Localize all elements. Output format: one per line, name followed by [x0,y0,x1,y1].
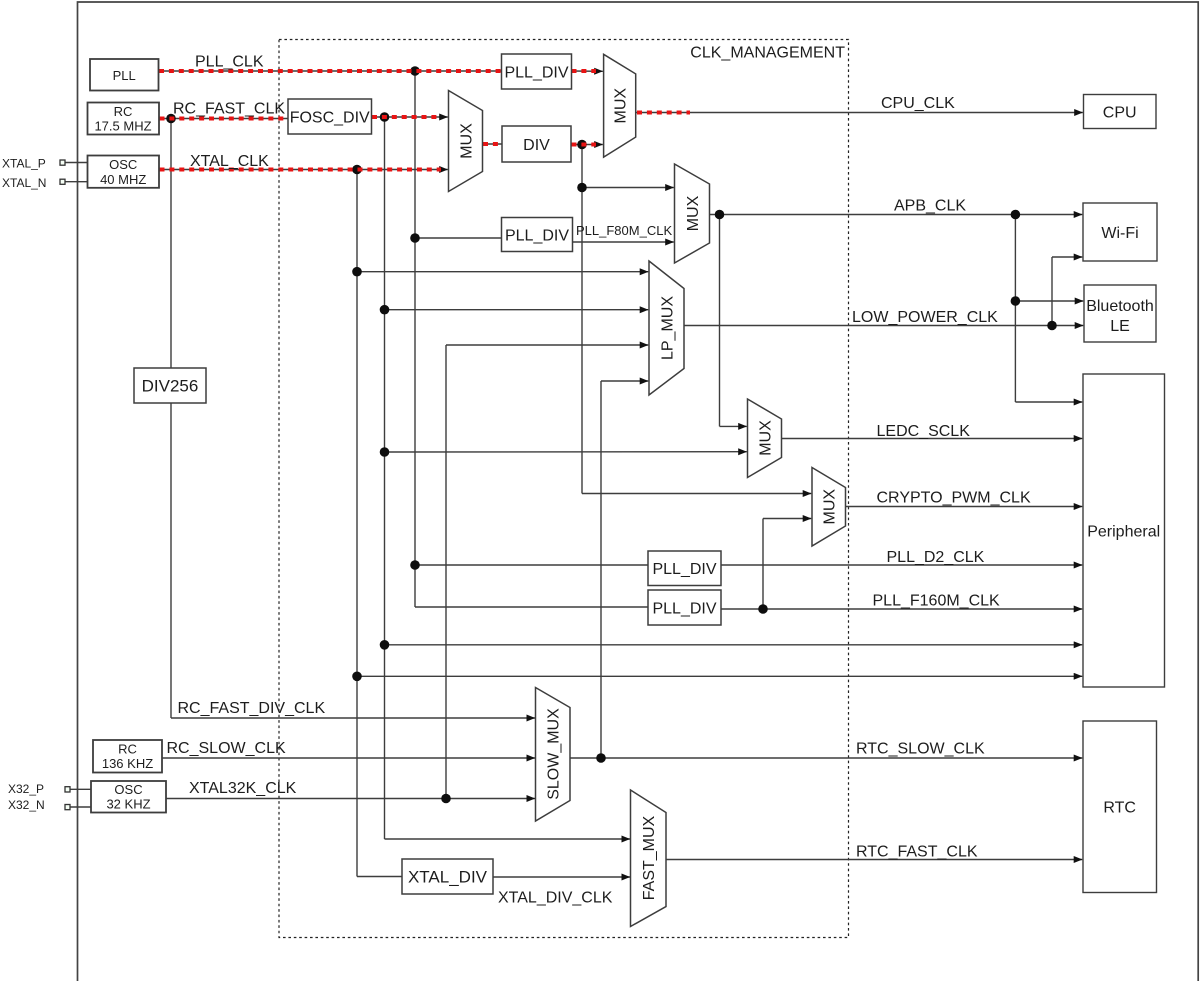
svg-text:MUX: MUX [757,420,774,456]
svg-text:DIV: DIV [523,137,550,154]
svg-text:MUX: MUX [458,123,475,159]
svg-text:XTAL_CLK: XTAL_CLK [190,153,269,170]
svg-text:XTAL_P: XTAL_P [2,156,46,170]
svg-text:PLL_F160M_CLK: PLL_F160M_CLK [873,593,1001,610]
svg-text:Bluetooth: Bluetooth [1086,298,1154,315]
svg-text:17.5 MHZ: 17.5 MHZ [94,118,151,133]
svg-text:PLL_DIV: PLL_DIV [505,227,569,244]
svg-text:RC: RC [114,104,133,119]
svg-text:LEDC_SCLK: LEDC_SCLK [877,423,971,440]
svg-text:OSC: OSC [114,782,142,797]
svg-text:RTC_FAST_CLK: RTC_FAST_CLK [856,844,978,861]
svg-text:PLL_DIV: PLL_DIV [652,600,716,617]
svg-text:PLL_F80M_CLK: PLL_F80M_CLK [576,223,672,238]
svg-text:CPU_CLK: CPU_CLK [881,95,955,112]
svg-text:MUX: MUX [612,88,629,124]
svg-text:MUX: MUX [822,489,839,525]
svg-text:RC_FAST_CLK: RC_FAST_CLK [173,101,285,118]
svg-text:APB_CLK: APB_CLK [894,198,966,215]
svg-text:RTC_SLOW_CLK: RTC_SLOW_CLK [856,741,985,758]
svg-text:136 KHZ: 136 KHZ [102,756,153,771]
svg-text:FOSC_DIV: FOSC_DIV [290,109,370,126]
svg-text:RC: RC [118,742,137,757]
svg-text:XTAL_DIV: XTAL_DIV [408,868,488,887]
svg-text:CRYPTO_PWM_CLK: CRYPTO_PWM_CLK [877,490,1031,507]
svg-text:PLL_D2_CLK: PLL_D2_CLK [887,549,985,566]
svg-text:XTAL32K_CLK: XTAL32K_CLK [189,780,297,797]
svg-text:32 KHZ: 32 KHZ [106,797,150,812]
svg-text:CLK_MANAGEMENT: CLK_MANAGEMENT [690,45,845,62]
svg-text:MUX: MUX [685,195,702,231]
svg-text:RC_FAST_DIV_CLK: RC_FAST_DIV_CLK [178,700,326,717]
svg-text:OSC: OSC [109,157,137,172]
svg-text:XTAL_DIV_CLK: XTAL_DIV_CLK [498,890,613,907]
svg-text:X32_P: X32_P [8,782,44,796]
svg-text:PLL_DIV: PLL_DIV [504,64,568,81]
svg-text:SLOW_MUX: SLOW_MUX [546,708,563,800]
svg-text:CPU: CPU [1103,104,1137,121]
svg-text:LP_MUX: LP_MUX [659,296,676,360]
svg-text:PLL_CLK: PLL_CLK [195,54,264,71]
svg-text:FAST_MUX: FAST_MUX [641,815,658,900]
svg-text:Wi-Fi: Wi-Fi [1101,225,1138,242]
svg-text:DIV256: DIV256 [142,377,199,396]
svg-text:Peripheral: Peripheral [1087,523,1160,540]
svg-text:PLL: PLL [113,68,136,83]
svg-text:XTAL_N: XTAL_N [2,176,46,190]
svg-text:40 MHZ: 40 MHZ [100,172,146,187]
svg-text:LOW_POWER_CLK: LOW_POWER_CLK [852,309,998,326]
svg-text:X32_N: X32_N [8,798,45,812]
svg-text:PLL_DIV: PLL_DIV [652,561,716,578]
svg-text:RTC: RTC [1103,800,1136,817]
svg-text:RC_SLOW_CLK: RC_SLOW_CLK [167,740,286,757]
svg-text:LE: LE [1110,318,1130,335]
